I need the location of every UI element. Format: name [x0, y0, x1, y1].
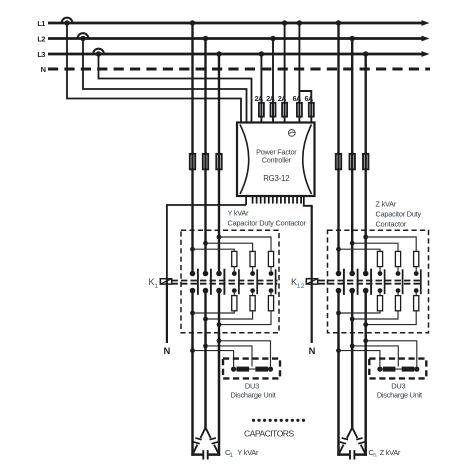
controller U1 pin 1 (K1 output) — [245, 196, 247, 205]
wire damping resistor RK121b return to phase — [339, 311, 381, 313]
fuse F5 element — [310, 101, 312, 118]
contact main pole 1 of K12 — [336, 271, 342, 277]
svg-text:L3: L3 — [37, 50, 45, 59]
contact main pole 3 of K1 — [216, 271, 222, 277]
wire bridge fuse F4 to fuse F5 — [299, 91, 311, 123]
svg-text:12: 12 — [297, 283, 305, 290]
contact aux pole 3 of K1 — [270, 267, 272, 272]
node row ellipsis (more capacitor stages) — [252, 419, 255, 422]
svg-text:CAPACITORS: CAPACITORS — [244, 429, 294, 439]
fuse phase L2 element — [204, 152, 206, 170]
arrowhead L3 — [422, 51, 430, 57]
wire phase tap to damping resistor RK13a — [217, 235, 222, 240]
tap T1 arc — [62, 18, 73, 23]
svg-text:2A: 2A — [278, 96, 287, 103]
fuse phase L2' body — [350, 154, 355, 169]
svg-text:6A: 6A — [305, 96, 314, 103]
resistor RK121b — [377, 296, 382, 311]
arrowhead L1 — [422, 20, 430, 26]
discharge unit DU3-2 terminals and link — [377, 367, 382, 372]
wire phase1 to discharge unit DU3-1 — [193, 351, 234, 367]
fuse phase L3 element — [218, 152, 220, 170]
svg-text:Discharge Unit: Discharge Unit — [377, 391, 422, 400]
node junction phase2 to discharge unit DU3-1 — [203, 344, 208, 349]
capacitor Cn bottom link with plates — [337, 453, 350, 456]
wire phase3 down to capacitor C1 — [218, 334, 221, 456]
wire L2 to fuse F2 — [272, 39, 274, 123]
svg-text:Contactor: Contactor — [376, 219, 407, 228]
resistor DU3-2 Rb — [402, 367, 415, 372]
node junction phase1 to discharge unit DU3-2 — [336, 348, 341, 353]
capacitor Cn delta right leg with plates — [352, 428, 357, 438]
svg-text:RG3-12: RG3-12 — [263, 174, 289, 183]
fuse F2 body — [271, 103, 276, 117]
svg-text:Controller: Controller — [262, 155, 292, 164]
fuse F1 body — [259, 103, 264, 117]
wire tap T1 to controller sense input — [67, 23, 241, 123]
contact aux pole 3 of K12 — [415, 267, 417, 272]
wire damping resistor RK13b return to phase — [219, 311, 271, 325]
wire damping resistor RK11b return to phase — [193, 311, 235, 313]
svg-text:Discharge Unit: Discharge Unit — [231, 391, 276, 400]
mechanical linkage of K1 (double dashed line) — [172, 280, 278, 282]
tap T2 arc — [78, 33, 89, 38]
contact aux pole 1 of K12 — [379, 267, 381, 272]
wire phase2 to discharge unit DU3-2 — [352, 346, 398, 367]
svg-text:1: 1 — [154, 283, 158, 290]
fuse F1 element — [260, 101, 262, 118]
svg-text:N: N — [41, 65, 46, 74]
node junction on L1 at x=284.6 — [282, 20, 287, 25]
resistor RK13b — [268, 296, 273, 311]
wire phase tap to damping resistor RK12a — [203, 241, 208, 246]
tap T3 arc — [93, 49, 104, 54]
neutral bus N (dashed) — [48, 68, 430, 71]
capacitor C1 delta right leg with plates — [206, 428, 211, 438]
mechanical linkage of K12 (double dashed line) — [319, 280, 421, 282]
fuse F2 element — [272, 101, 274, 118]
wire coil K12 to N — [311, 284, 313, 343]
node junction phase3 to discharge unit DU3-1 — [217, 338, 222, 343]
svg-text:N: N — [164, 345, 171, 356]
discharge unit DU3-1 boundary (dashed box) — [223, 359, 280, 379]
fuse phase L2' element — [351, 152, 353, 170]
bus line L2 — [48, 37, 423, 40]
wire phase1 to discharge unit DU3-2 — [339, 351, 380, 367]
node junction on L3 at x=365.7 — [363, 51, 368, 56]
tap T2 on L2 (dot) — [80, 36, 85, 41]
node junction on L3 at x=219.0 — [216, 51, 221, 56]
contactor K1 boundary (dashed box) — [181, 230, 279, 333]
bus line L3 — [48, 53, 423, 56]
fuse F4 element — [298, 101, 300, 118]
op-amp-style body outline of controller U1 — [237, 123, 315, 197]
svg-text:Z kVAr: Z kVAr — [380, 448, 401, 457]
svg-text:Y kVAr: Y kVAr — [237, 448, 259, 457]
node junction on L1 at x=338.5 — [336, 20, 341, 25]
contact main pole 1 of K1 — [190, 271, 196, 277]
svg-text:L1: L1 — [37, 19, 45, 28]
contact main pole 3 of K12 — [363, 271, 369, 277]
fuse phase L1' body — [336, 154, 341, 169]
node junction phase3 to discharge unit DU3-2 — [363, 338, 368, 343]
fuse phase L3' element — [365, 152, 367, 170]
wire controller pin15 to coil K12 — [311, 206, 313, 279]
resistor RK11a — [232, 251, 237, 266]
controller U1 pin 15 (K12 output) — [304, 196, 312, 208]
resistor RK12a — [250, 251, 255, 266]
tap T3 on L3 (dot) — [96, 51, 101, 56]
node junction on L2 at x=352.2 — [350, 36, 355, 41]
resistor DU3-1 Rb — [255, 367, 268, 372]
fuse phase L1 element — [191, 152, 193, 170]
resistor RK122a — [395, 251, 400, 266]
wire phase3 down to capacitor Cn — [364, 334, 367, 456]
arrowhead L2 — [422, 36, 430, 42]
svg-text:Y kVAr: Y kVAr — [228, 208, 250, 217]
wire damping resistor RK123b return to phase — [366, 311, 417, 325]
controller U1 pins 2-14 — [252, 196, 254, 204]
wire phase tap to damping resistor RK123a — [363, 235, 368, 240]
fuse F3 body — [282, 103, 287, 117]
discharge unit DU3-1 terminals and link — [231, 367, 236, 372]
coil K1 — [160, 279, 171, 284]
svg-text:L2: L2 — [37, 34, 45, 43]
resistor RK12b — [250, 296, 255, 311]
wire L1 to fuse F3 — [284, 23, 286, 123]
svg-text:DU3: DU3 — [391, 381, 405, 390]
discharge unit DU3-2 boundary (dashed box) — [369, 359, 426, 379]
fuse phase L2 body — [203, 154, 208, 169]
fuse phase L1' element — [337, 152, 339, 170]
capacitor Cn delta left leg with plates — [347, 428, 352, 438]
wire coil K1 to N — [166, 284, 168, 343]
wire phase2 down to capacitor Cn — [351, 334, 354, 428]
controller U1 right concave arc — [303, 125, 312, 195]
capacitor C1 bottom link with plates — [191, 453, 203, 456]
bus line L1 — [48, 22, 423, 25]
resistor DU3-1 Ra — [237, 367, 250, 372]
fuse F5 body — [309, 103, 314, 117]
contact aux pole 2 of K12 — [397, 267, 399, 272]
wire phase L2' drop to contactor — [351, 39, 353, 272]
resistor RK13a — [268, 251, 273, 266]
capacitor C1 delta left leg with plates — [201, 428, 206, 438]
wire tap T3 to controller sense input — [99, 54, 252, 123]
node junction phase2 to discharge unit DU3-2 — [350, 344, 355, 349]
fuse phase L1 body — [190, 154, 195, 169]
contact aux pole 1 of K1 — [233, 267, 235, 272]
svg-text:Z kVAr: Z kVAr — [376, 199, 397, 208]
wire phase tap to damping resistor RK11a — [190, 247, 195, 252]
wire damping resistor RK122b return to phase — [352, 311, 398, 319]
wire L1 to fuse F4 — [298, 23, 300, 123]
svg-text:Capacitor Duty: Capacitor Duty — [376, 209, 422, 218]
contact aux pole 2 of K1 — [252, 267, 254, 272]
wire phase tap to damping resistor RK121a — [336, 247, 341, 252]
node junction on L1 at x=192.5 — [190, 20, 195, 25]
resistor RK121a — [377, 251, 382, 266]
fuse F4 body — [297, 103, 302, 117]
wire phase L1' drop to contactor — [337, 23, 339, 272]
coil K12 — [306, 279, 317, 284]
resistor RK122b — [395, 296, 400, 311]
svg-text:2A: 2A — [266, 96, 275, 103]
fuse F3 element — [284, 101, 286, 118]
wire tap T2 to controller sense input — [83, 39, 247, 123]
resistor RK123b — [414, 296, 419, 311]
node junction on L2 at x=273.0 — [270, 36, 275, 41]
wire phase2 down to capacitor C1 — [204, 334, 207, 428]
svg-text:N: N — [309, 345, 316, 356]
wire phase L1 drop to contactor — [191, 23, 193, 272]
controller U1 left concave arc — [240, 125, 249, 195]
resistor RK11b — [232, 296, 237, 311]
resistor DU3-2 Ra — [383, 367, 396, 372]
node junction phase1 to discharge unit DU3-1 — [190, 348, 195, 353]
wire damping resistor RK12b return to phase — [206, 311, 253, 319]
fuse phase L3 body — [216, 154, 221, 169]
resistor RK123a — [414, 251, 419, 266]
contact main pole 2 of K1 — [203, 271, 209, 277]
tap T1 on L1 (dot) — [64, 20, 69, 25]
svg-text:2A: 2A — [255, 96, 264, 103]
wire L3 to fuse F1 — [260, 54, 262, 123]
wire phase1 down to capacitor C1 — [191, 334, 194, 456]
wire phase1 down to capacitor Cn — [337, 334, 340, 456]
wire phase2 to discharge unit DU3-1 — [206, 346, 253, 367]
wire phase L3 drop to contactor — [218, 54, 220, 272]
wire phase tap to damping resistor RK122a — [350, 241, 355, 246]
controller U1 maker logo — [288, 130, 295, 137]
svg-text:Capacitor Duty Contactor: Capacitor Duty Contactor — [228, 219, 307, 228]
svg-text:DU3: DU3 — [245, 381, 259, 390]
wire controller pin1 to coil K1 — [167, 205, 246, 279]
node junction on L1 at x=299.4 — [297, 20, 302, 25]
svg-text:6A: 6A — [293, 96, 302, 103]
wire phase3 to discharge unit DU3-1 — [219, 341, 271, 367]
fuse phase L3' body — [363, 154, 368, 169]
wire phase L3' drop to contactor — [365, 54, 367, 272]
wire phase L2 drop to contactor — [204, 39, 206, 272]
node junction on L3 at x=261.4 — [259, 51, 264, 56]
node junction on L2 at x=205.5 — [203, 36, 208, 41]
svg-text:n: n — [373, 453, 376, 459]
wire phase3 to discharge unit DU3-2 — [366, 341, 417, 367]
contact main pole 2 of K12 — [349, 271, 355, 277]
contactor K12 boundary (dashed box) — [328, 230, 429, 333]
